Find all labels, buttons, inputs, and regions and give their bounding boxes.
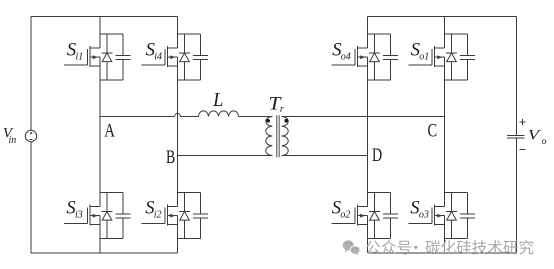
- label S_o3: [410, 199, 429, 221]
- svg-text:B: B: [166, 146, 175, 168]
- label S_o2: [332, 199, 351, 221]
- watermark: WeChat logo: [343, 240, 360, 255]
- svg-text:i4: i4: [154, 51, 162, 62]
- svg-text:o4: o4: [341, 51, 351, 62]
- wire node D: transformer secondary to bridge midpoint D: [282, 155, 368, 157]
- switch S_o3: MOSFET with body diode and parallel capacitor: [409, 193, 476, 239]
- label S_o4: [332, 41, 351, 63]
- svg-text:C: C: [428, 120, 438, 141]
- switch S_o1: MOSFET with body diode and parallel capacitor: [409, 34, 476, 80]
- wire: inductor to transformer primary: [239, 116, 273, 118]
- svg-text:r: r: [280, 104, 284, 115]
- watermark text: 公众号·碳化硅技术研究: [366, 240, 534, 255]
- label Vo: [528, 126, 547, 147]
- wire node B: bridge midpoint B to transformer primary: [178, 155, 273, 157]
- transformer Tr secondary winding: [282, 117, 289, 156]
- svg-text:o: o: [542, 137, 547, 147]
- wire node A: bridge midpoint A to inductor, hop over leg 2: [100, 116, 198, 118]
- voltage source Vin: [25, 130, 36, 141]
- label S_o1: [411, 41, 430, 63]
- label S_i2: [145, 199, 161, 221]
- label Tr (transformer): [269, 93, 284, 115]
- svg-text:i1: i1: [76, 51, 84, 62]
- svg-text:i2: i2: [154, 209, 162, 220]
- wire: top rail right: [368, 16, 517, 18]
- label S_i3: [66, 199, 82, 221]
- polarity label -: [520, 149, 526, 151]
- wire: right output rail: [516, 17, 518, 254]
- svg-text:o1: o1: [419, 51, 429, 62]
- wire: right bridge leg 2: [444, 17, 446, 254]
- capacitor Co (output filter): [507, 136, 525, 139]
- switch S_o4: MOSFET with body diode and parallel capacitor: [332, 34, 399, 80]
- transformer polarity dot secondary: [284, 119, 288, 123]
- transformer polarity dot primary: [266, 119, 270, 123]
- switch S_i4: MOSFET with body diode and parallel capacitor: [142, 34, 209, 80]
- transformer Tr primary winding: [266, 117, 273, 156]
- svg-text:i3: i3: [75, 209, 83, 220]
- switch S_i3: MOSFET with body diode and parallel capacitor: [64, 193, 131, 239]
- svg-text:in: in: [9, 135, 17, 146]
- wire node C: transformer secondary to bridge midpoint C: [282, 116, 445, 118]
- switch S_i1: MOSFET with body diode and parallel capacitor: [64, 34, 131, 80]
- polarity label +: [520, 119, 526, 125]
- svg-text:o3: o3: [419, 209, 429, 220]
- wire: left input rail: [30, 17, 32, 254]
- wire: left bridge leg 2: [177, 17, 179, 254]
- svg-text:L: L: [212, 89, 223, 111]
- svg-text:o2: o2: [340, 209, 350, 220]
- switch S_i2: MOSFET with body diode and parallel capacitor: [142, 193, 209, 239]
- label S_i1: [67, 41, 83, 63]
- svg-text:D: D: [372, 144, 382, 166]
- wire: right bridge leg 1: [367, 17, 369, 254]
- svg-text:A: A: [104, 120, 115, 141]
- switch S_o2: MOSFET with body diode and parallel capacitor: [332, 193, 399, 239]
- wire: bottom rail left: [31, 252, 178, 254]
- wire: bottom rail right: [368, 252, 517, 254]
- svg-text:V: V: [528, 126, 541, 143]
- label S_i4: [146, 41, 162, 63]
- wire: left bridge leg 1: [99, 17, 101, 254]
- wire: top rail left: [31, 16, 178, 18]
- label Vin: [3, 125, 16, 146]
- transformer Tr core: [277, 115, 280, 157]
- inductor L: [198, 111, 238, 117]
